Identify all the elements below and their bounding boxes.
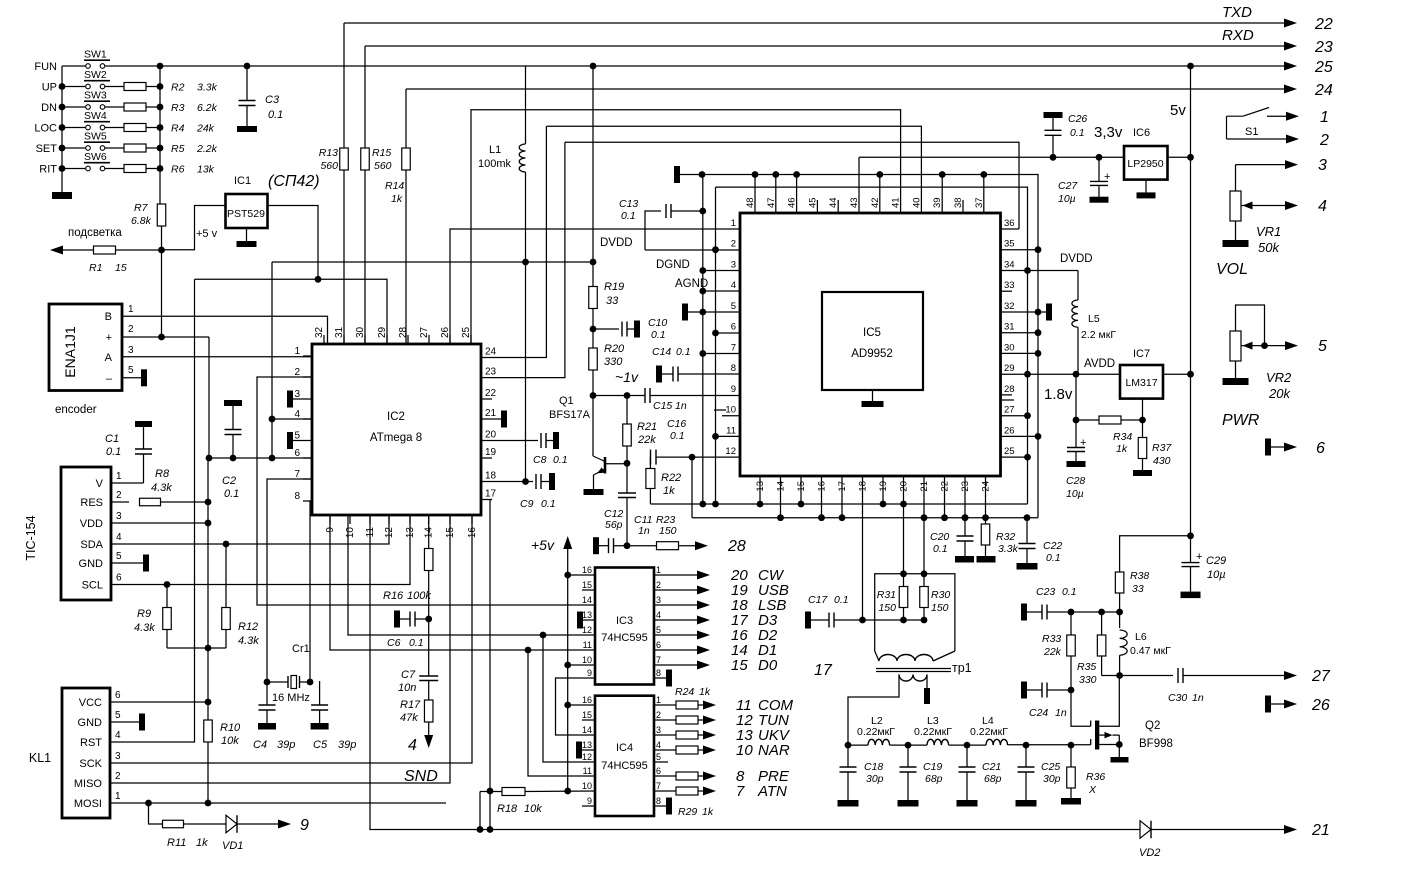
terminal output 6	[1265, 439, 1271, 456]
ground KL1 GND	[110, 721, 139, 723]
IC2 pin 3	[303, 398, 312, 400]
wire to ATmega pin 4	[272, 418, 312, 420]
wire DVDD top rail	[680, 175, 1038, 518]
svg-text:1: 1	[656, 695, 661, 705]
wire	[62, 147, 85, 149]
svg-text:D0: D0	[758, 657, 778, 674]
IC2 pin 30	[364, 335, 366, 344]
node SDA-R12	[223, 541, 230, 548]
wire IC4 pin12 latch	[543, 635, 595, 762]
connector ENA1J1 encoder	[49, 304, 122, 391]
svg-text:74HC595: 74HC595	[601, 760, 647, 772]
arrow output 15 D0	[654, 664, 698, 666]
resistor R8 4.3k	[111, 501, 129, 503]
arrow output 19 USB	[654, 589, 698, 591]
svg-text:AVDD: AVDD	[1084, 358, 1115, 370]
svg-text:3: 3	[115, 751, 121, 762]
svg-text:B: B	[105, 311, 112, 323]
svg-text:0.1: 0.1	[409, 637, 424, 649]
svg-text:1k: 1k	[699, 686, 711, 698]
svg-text:22k: 22k	[637, 434, 656, 446]
wire IC5 pin32 ground	[1001, 311, 1047, 313]
wire KL1 VCC	[110, 701, 208, 703]
svg-text:RIT: RIT	[39, 164, 57, 176]
capacitor C14 0.1	[656, 366, 662, 383]
svg-text:8: 8	[294, 491, 300, 502]
svg-text:тр1: тр1	[952, 661, 972, 675]
wire bus H7 right	[565, 142, 1019, 229]
svg-text:39p: 39p	[277, 739, 295, 751]
IC2 pin 24	[481, 357, 492, 359]
svg-text:20k: 20k	[1268, 386, 1291, 401]
IC2 pin 5	[303, 440, 312, 442]
resistor R7 6.8k	[157, 204, 166, 226]
wire	[62, 106, 85, 108]
wire pin21 to R30	[923, 476, 925, 586]
arrow output 20 CW	[654, 574, 698, 576]
svg-text:R2: R2	[171, 82, 185, 94]
wire filter rail	[848, 744, 868, 746]
svg-text:PST529: PST529	[227, 208, 265, 220]
svg-text:R29: R29	[678, 806, 697, 818]
svg-text:4: 4	[731, 280, 736, 291]
wire IC3 pin9 cascade to IC4 pin14	[556, 678, 596, 735]
svg-text:3: 3	[128, 345, 134, 356]
IC2 pin 1	[303, 355, 312, 357]
node	[876, 171, 883, 178]
IC2 pin 13	[409, 515, 411, 524]
svg-text:16: 16	[582, 695, 592, 705]
IC4 pin15 stub	[582, 719, 595, 721]
svg-text:SND: SND	[404, 768, 438, 785]
svg-text:24: 24	[485, 347, 497, 358]
svg-text:C30: C30	[1168, 692, 1187, 704]
capacitor C26 0.1	[1044, 112, 1063, 118]
svg-text:22: 22	[1314, 16, 1333, 33]
svg-text:S1: S1	[1245, 126, 1258, 138]
svg-text:9: 9	[300, 817, 309, 834]
svg-text:4: 4	[115, 730, 121, 741]
wire IC6 to 5v	[1168, 156, 1191, 158]
wire drain node row	[1047, 611, 1120, 613]
wire switch right column	[159, 66, 161, 204]
arrow output 27	[1284, 671, 1297, 680]
svg-text:RST: RST	[80, 737, 102, 749]
wire crystal to ATmega pin 7	[267, 479, 312, 682]
svg-text:30: 30	[1004, 342, 1015, 353]
arrow output 28	[695, 541, 708, 550]
wire serial line upper	[272, 261, 593, 263]
capacitor C12 56p	[626, 463, 628, 493]
IC2 pin 21	[481, 418, 492, 420]
arrow output 21	[1284, 825, 1297, 834]
svg-text:R14: R14	[385, 180, 404, 192]
svg-text:8: 8	[656, 668, 661, 678]
svg-text:1k: 1k	[702, 806, 714, 818]
wire pin stub	[800, 476, 802, 504]
svg-text:R18: R18	[497, 803, 518, 815]
svg-text:C20: C20	[930, 531, 949, 543]
resistor R2 3.3k	[124, 83, 146, 91]
IC2 pin 10	[349, 515, 351, 524]
svg-text:2: 2	[656, 580, 661, 590]
wire DGND column to ground rails	[702, 175, 704, 505]
wire bus H5	[471, 110, 901, 344]
svg-text:+5 v: +5 v	[196, 228, 218, 240]
svg-text:6: 6	[115, 690, 121, 701]
svg-text:2: 2	[116, 490, 122, 501]
ground IC5 thermal pad	[872, 390, 874, 401]
svg-text:R21: R21	[637, 421, 657, 433]
wire IC5 pin2 DVDD	[645, 249, 740, 251]
svg-text:X: X	[1088, 784, 1097, 796]
svg-text:10: 10	[582, 655, 592, 665]
node	[59, 83, 66, 90]
capacitor C24 1n	[1021, 682, 1027, 699]
svg-text:10: 10	[725, 405, 736, 416]
svg-text:C22: C22	[1043, 540, 1062, 552]
svg-text:C1: C1	[105, 433, 119, 445]
wire reset to KL1 RST	[111, 279, 195, 742]
svg-text:C25: C25	[1041, 761, 1060, 773]
wire bottom line to VD2	[370, 515, 1132, 830]
node	[793, 171, 800, 178]
svg-text:4.3k: 4.3k	[238, 635, 259, 647]
svg-text:20: 20	[485, 430, 497, 441]
wire	[105, 147, 124, 149]
resistor R14 1k	[405, 89, 407, 148]
svg-text:C24: C24	[1029, 707, 1048, 719]
wire IC3 pin10 +5v	[568, 664, 595, 666]
svg-text:1n: 1n	[1055, 707, 1067, 719]
svg-text:R31: R31	[877, 589, 896, 601]
svg-text:0.1: 0.1	[676, 346, 691, 358]
svg-text:3: 3	[1318, 157, 1327, 174]
wire IC5 pin34	[1001, 270, 1079, 272]
svg-text:C9: C9	[520, 498, 534, 510]
capacitor C27 10u polarized	[1098, 157, 1100, 181]
capacitor C19 68p	[907, 745, 909, 767]
svg-text:13: 13	[582, 610, 592, 620]
svg-text:28: 28	[398, 326, 409, 338]
svg-text:27: 27	[1311, 668, 1331, 685]
svg-text:4: 4	[656, 740, 661, 750]
wire IC5 pin35 DVDD	[1001, 249, 1039, 251]
svg-text:23: 23	[1314, 39, 1333, 56]
svg-text:24k: 24k	[196, 123, 215, 135]
svg-text:7: 7	[294, 469, 300, 480]
svg-text:26: 26	[440, 326, 451, 338]
svg-text:150: 150	[659, 525, 677, 537]
svg-text:VR2: VR2	[1266, 370, 1292, 385]
svg-text:IC2: IC2	[387, 411, 405, 423]
arrow output 4	[1285, 201, 1298, 210]
svg-text:5: 5	[116, 551, 122, 562]
node	[798, 501, 805, 508]
svg-text:R11: R11	[167, 837, 186, 849]
wire AVDD to R34	[1075, 374, 1077, 420]
wire reset line to ATmega pin 29	[195, 279, 388, 344]
wire IC5 pin31	[1001, 332, 1039, 334]
svg-text:32: 32	[314, 326, 325, 338]
capacitor C16 0.1	[650, 450, 652, 465]
node MOSI	[145, 800, 152, 807]
wire IC1 left pin to +5v node	[163, 206, 226, 250]
svg-text:RXD: RXD	[1222, 27, 1254, 44]
svg-text:10n: 10n	[398, 682, 416, 694]
wire VR1 top to output 3	[1236, 164, 1286, 166]
svg-text:R16: R16	[383, 590, 404, 602]
svg-text:1: 1	[1320, 109, 1329, 126]
svg-text:7: 7	[656, 655, 661, 665]
svg-text:1: 1	[128, 304, 134, 315]
IC5 pin 45 stub	[816, 200, 818, 213]
svg-text:13: 13	[582, 740, 592, 750]
node	[752, 171, 759, 178]
capacitor C1 0.1	[135, 421, 152, 427]
svg-text:подсветка: подсветка	[68, 227, 122, 239]
wire KL1 MOSI	[110, 802, 446, 804]
svg-text:8: 8	[731, 363, 736, 374]
svg-text:L1: L1	[489, 144, 501, 156]
ground IC3 pin13	[583, 619, 595, 621]
svg-text:Q1: Q1	[559, 395, 574, 407]
svg-text:DVDD: DVDD	[1060, 253, 1093, 265]
wire pin stub	[780, 476, 782, 518]
wire pin22 stub	[944, 476, 946, 518]
capacitor C8 0.1 on pin 20	[492, 440, 538, 442]
svg-text:33: 33	[1004, 280, 1015, 291]
svg-text:ATmega 8: ATmega 8	[370, 432, 422, 444]
svg-text:R6: R6	[171, 164, 185, 176]
node	[980, 171, 987, 178]
ground IC2 pin 5	[293, 440, 303, 442]
ground switch column	[52, 192, 72, 199]
wire SCL row to ATmega pin 13	[111, 515, 410, 585]
wire FUN row to right rail / output 25	[105, 65, 1285, 67]
wire	[62, 168, 85, 170]
svg-text:IC4: IC4	[616, 742, 633, 754]
IC2 pin 15	[449, 515, 451, 524]
IC2 pin 12	[388, 515, 390, 524]
svg-text:4: 4	[116, 532, 122, 543]
resistor R15 560	[364, 46, 366, 148]
svg-text:GND: GND	[79, 558, 104, 570]
svg-text:15: 15	[582, 710, 592, 720]
svg-text:0.1: 0.1	[651, 329, 666, 341]
resistor R23 150	[657, 542, 679, 550]
svg-text:37: 37	[974, 197, 985, 208]
wire	[62, 86, 85, 88]
svg-text:R15: R15	[372, 147, 391, 159]
svg-text:FUN: FUN	[34, 61, 57, 73]
wire pin23 to bus H7	[492, 142, 565, 377]
svg-text:R8: R8	[155, 468, 170, 480]
svg-text:41: 41	[891, 197, 902, 208]
svg-text:2.2k: 2.2k	[196, 143, 218, 155]
IC5 pin10 stub	[722, 415, 740, 417]
wire IC4 pin10 R18 +5v	[525, 790, 595, 793]
wire secondary right lead	[926, 675, 928, 695]
svg-text:16: 16	[467, 527, 478, 539]
svg-text:46: 46	[787, 197, 798, 208]
transformer tr1 core	[876, 668, 951, 670]
svg-text:SET: SET	[36, 143, 58, 155]
svg-text:2: 2	[1319, 132, 1329, 149]
wire C1 to TIC V	[111, 482, 144, 484]
node	[59, 145, 66, 152]
wire	[271, 262, 273, 458]
wire pin stub	[941, 175, 943, 214]
svg-text:R5: R5	[171, 143, 185, 155]
svg-text:V: V	[96, 478, 104, 490]
svg-text:UP: UP	[42, 82, 57, 94]
svg-text:4: 4	[1318, 198, 1327, 215]
wire switch left column	[61, 66, 63, 192]
svg-text:17: 17	[485, 489, 497, 500]
svg-text:6.2k: 6.2k	[197, 102, 218, 114]
svg-text:50k: 50k	[1258, 240, 1280, 255]
node	[699, 171, 706, 178]
resistor R3 6.2k	[124, 103, 146, 111]
inductor L3 0.22mkG	[927, 739, 949, 745]
svg-text:15: 15	[582, 580, 592, 590]
svg-text:1n: 1n	[675, 400, 687, 412]
inductor L5 2.2mkG	[1077, 271, 1079, 301]
wire pin20 to R31	[903, 476, 905, 586]
IC2 pin 27	[428, 335, 430, 344]
svg-text:40: 40	[911, 197, 922, 208]
svg-text:C29: C29	[1206, 555, 1226, 567]
svg-text:68p: 68p	[925, 773, 943, 785]
wire IC4 pin11 clock	[528, 650, 595, 776]
IC2 ATmega8 MCU	[312, 344, 481, 515]
svg-text:30: 30	[355, 326, 366, 338]
svg-text:0.22мкГ: 0.22мкГ	[857, 726, 895, 738]
wire pin stub	[841, 476, 843, 518]
svg-text:34: 34	[1004, 259, 1015, 270]
svg-text:47k: 47k	[400, 712, 418, 724]
IC2 pin 22	[481, 398, 492, 400]
svg-text:C6: C6	[387, 637, 401, 649]
wire IC5 pin7	[703, 353, 740, 355]
svg-text:R7: R7	[134, 202, 149, 214]
wire KL1 SCK to ATmega pin 16	[110, 515, 472, 763]
arrow output 18 LSB	[654, 604, 698, 606]
IC4 pin5 stub	[654, 761, 668, 763]
svg-text:18: 18	[485, 471, 497, 482]
node ~1v	[590, 392, 597, 399]
wire pin24 to bus H6	[492, 126, 546, 357]
node	[777, 514, 784, 521]
wire IC5 pin36 to H7	[1001, 228, 1020, 230]
svg-text:29: 29	[377, 326, 388, 338]
svg-text:C26: C26	[1068, 113, 1087, 125]
svg-text:28: 28	[727, 538, 746, 555]
svg-text:12: 12	[582, 625, 592, 635]
transformer tr1 secondary	[899, 675, 927, 682]
svg-text:1k: 1k	[1116, 443, 1128, 455]
wire primary loop	[875, 574, 955, 651]
inductor L4 0.22mkG	[986, 739, 1008, 745]
IC2 pin 28	[407, 335, 409, 344]
connector KL1 ISP	[62, 688, 110, 818]
ground IC4 pin13	[582, 749, 595, 751]
arrow output 5	[1285, 341, 1298, 350]
capacitor C10 0.1	[593, 328, 619, 330]
resistor R18 10k	[502, 788, 525, 796]
svg-text:LOC: LOC	[34, 123, 57, 135]
svg-text:39: 39	[932, 197, 943, 208]
svg-text:SW1: SW1	[84, 48, 107, 60]
svg-text:0.1: 0.1	[834, 594, 849, 606]
IC2 pin 20	[481, 440, 492, 442]
svg-text:L5: L5	[1088, 313, 1100, 325]
svg-text:1k: 1k	[391, 193, 403, 205]
svg-text:560: 560	[320, 160, 338, 172]
svg-text:VCC: VCC	[79, 697, 102, 709]
wire RXD bus	[365, 45, 1285, 47]
svg-text:39p: 39p	[338, 739, 356, 751]
svg-text:33: 33	[1132, 583, 1144, 595]
svg-text:0.1: 0.1	[553, 454, 568, 466]
capacitor C5 39p	[319, 681, 321, 705]
switch S1	[1226, 116, 1228, 139]
svg-text:VD1: VD1	[222, 840, 243, 852]
svg-text:1: 1	[294, 346, 300, 357]
svg-text:SW6: SW6	[84, 151, 107, 163]
wire encoder + down to pin6 row	[208, 337, 210, 458]
IC5 pin28 stub	[1001, 394, 1013, 396]
wire pin stub	[775, 175, 777, 214]
svg-text:R36: R36	[1086, 771, 1105, 783]
svg-text:NAR: NAR	[758, 742, 790, 759]
IC7 LM317 regulator	[1120, 365, 1163, 399]
svg-text:C15: C15	[653, 400, 672, 412]
wire ATmega pin26 to IC5 pin1	[450, 229, 740, 344]
svg-text:ATN: ATN	[757, 783, 787, 800]
wire pin23 C20 column	[964, 476, 966, 518]
node	[921, 514, 928, 521]
node	[590, 326, 597, 333]
svg-text:27: 27	[1004, 405, 1015, 416]
svg-text:4: 4	[294, 409, 300, 420]
svg-text:2.2 мкГ: 2.2 мкГ	[1081, 329, 1116, 341]
IC2 pin 6	[303, 457, 312, 459]
node	[818, 514, 825, 521]
wire	[105, 106, 124, 108]
IC5 pin 44 stub	[837, 200, 839, 213]
wire Q1 base	[605, 463, 627, 465]
svg-text:MOSI: MOSI	[74, 798, 102, 810]
resistor R6 13k	[124, 165, 146, 173]
svg-text:23: 23	[485, 367, 497, 378]
svg-text:45: 45	[807, 197, 818, 208]
resistor R32 3.3k	[985, 518, 987, 524]
svg-text:2: 2	[656, 710, 661, 720]
svg-text:C14: C14	[652, 346, 671, 358]
potentiometer VR2 20k	[1236, 305, 1265, 346]
arrow output 23	[1284, 42, 1297, 51]
IC2 pin 29	[386, 335, 388, 344]
wire secondary left lead	[848, 675, 899, 746]
wire IC5 pin26	[1001, 435, 1039, 437]
svg-text:12: 12	[725, 446, 736, 457]
svg-text:0.1: 0.1	[106, 446, 121, 458]
ground IC2 pin 21	[492, 418, 501, 420]
svg-text:31: 31	[1004, 322, 1015, 333]
svg-text:3: 3	[116, 511, 122, 522]
